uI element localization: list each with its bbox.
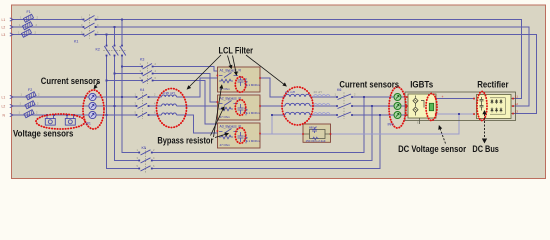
switch K5 pole 2 (141, 158, 151, 163)
svg-text:K4: K4 (140, 88, 144, 92)
wire DC snubber branch (260, 114, 459, 134)
svg-text:A2_Bypass_R: A2_Bypass_R (220, 97, 242, 101)
subsystem enclosure converter (405, 92, 516, 121)
highlight ellipse voltage sensors (36, 114, 85, 129)
wire L2 top bus (12, 27, 529, 106)
current sensor CT6 green phase3 (394, 112, 401, 119)
bypass module box B1 (218, 67, 261, 92)
highlight ellipse DC voltage sensor (426, 94, 437, 121)
svg-text:L1: L1 (2, 18, 6, 22)
IGBT module U1 (408, 94, 436, 124)
svg-text:0.95 mH: 0.95 mH (163, 91, 175, 95)
switch K6 pole 1 (338, 94, 352, 100)
inductor La1 0.95mH (162, 95, 177, 97)
junction node snubber tee (458, 113, 460, 115)
switch K4 pole 2 (138, 103, 148, 108)
highlight ellipse inductors La (157, 89, 187, 128)
svg-text:1 MOhm: 1 MOhm (249, 111, 261, 115)
bypass module box B3 (218, 123, 261, 148)
svg-text:Current sensors: Current sensors (339, 80, 399, 90)
junction node K3 tee phase3 (105, 79, 107, 81)
annotation arrow bypass to B1 (214, 88, 222, 137)
inductor Lb3 (285, 112, 310, 115)
highlight ellipse current sensors right (389, 87, 406, 128)
terminal L2 input (10, 25, 13, 28)
svg-text:Rectifier: Rectifier (477, 79, 509, 89)
svg-text:W1: W1 (86, 122, 91, 126)
svg-text:K3: K3 (140, 58, 144, 62)
rectifier module U2 (477, 95, 514, 119)
junction node K3 tee phase1 (121, 65, 123, 67)
junction node ellipse2 tee (271, 114, 273, 116)
inductor Lc2 (314, 104, 330, 106)
annotation arrow LCL to B1 (228, 56, 231, 66)
svg-text:L2: L2 (2, 26, 6, 30)
wire K3 bypass feed phase3 (107, 81, 218, 125)
RC snubber box (303, 124, 331, 143)
svg-text:DC Bus: DC Bus (472, 144, 499, 154)
junction node loop return phase2 (371, 105, 373, 107)
fuse F1 phase L3 (21, 29, 31, 37)
wire mid bus phase1 (12, 78, 407, 97)
fuse F1 phase L2 (22, 22, 32, 30)
wire K3 bypass feed phase2 (115, 74, 218, 103)
svg-text:F2: F2 (28, 88, 32, 92)
wire tap phase1 vertical + bottom loop (122, 20, 364, 153)
terminal L1 input (10, 18, 13, 117)
wire DC plus link (436, 98, 474, 100)
highlight ellipse DC bus capacitors (477, 92, 487, 121)
svg-text:L1: L1 (515, 95, 519, 99)
junction node loop return phase1 (363, 96, 365, 98)
svg-text:Voltage sensors: Voltage sensors (13, 129, 73, 139)
bypass module box B2 (218, 95, 261, 120)
svg-text:1 MOhm: 1 MOhm (249, 83, 261, 87)
pin number texts (18, 15, 419, 168)
junction node tap L3 (105, 33, 107, 35)
wire L3 top bus (12, 35, 537, 114)
switch K3 pole 3 (143, 78, 153, 84)
junction node mid bus phase3 (105, 114, 107, 116)
switch K2 pole 2 (112, 46, 118, 56)
inductor Lb2 (285, 103, 310, 106)
terminal L1 measure input (10, 95, 13, 98)
wire tap phase3 vertical + bottom loop (107, 35, 381, 169)
svg-text:1 MOhm: 1 MOhm (249, 139, 261, 143)
junction node K3 tee phase2 (113, 72, 115, 74)
svg-text:150 Ohm 2.2uF: 150 Ohm 2.2uF (306, 139, 326, 143)
current sensor CT4 green phase1 (394, 94, 401, 101)
svg-text:L2: L2 (515, 102, 519, 106)
svg-text:A1_Bypass_R: A1_Bypass_R (220, 69, 242, 73)
terminal L3 input (10, 33, 13, 36)
wire tap phase2 vertical + bottom loop (115, 27, 373, 161)
switch K1 pole L2 (84, 23, 95, 29)
voltage sensor VT2 (65, 115, 75, 125)
svg-text:Current sensors: Current sensors (41, 76, 101, 86)
component pin red markers (217, 75, 514, 135)
switch K3 pole 2 (143, 71, 153, 77)
reference designators and values (27, 10, 395, 150)
current sensor CT2 phase2 (89, 102, 96, 109)
junction node voltage sensor taps (46, 114, 48, 116)
svg-text:L1: L1 (2, 96, 6, 100)
svg-text:K1: K1 (74, 40, 78, 44)
highlight ellipse current sensors left (36, 77, 487, 144)
highlight ellipse bypass cap B2 (235, 100, 245, 116)
junction node mid bus phase1 (121, 96, 123, 98)
inductor La2 (162, 104, 177, 106)
current sensor CT5 green phase2 (394, 103, 401, 110)
svg-text:L3: L3 (2, 33, 6, 37)
highlight ellipse bypass cap B3 (235, 128, 245, 144)
switch K5 pole 1 (141, 150, 151, 155)
junction node tap L1 (46, 18, 460, 116)
schematic sheet (0, 0, 550, 188)
annotation arrow LCL to Lb (246, 55, 284, 84)
svg-text:2.1 mH: 2.1 mH (285, 90, 295, 94)
terminal N measure input (10, 113, 13, 116)
switch K3 pole 1 (143, 64, 153, 70)
svg-text:47 Ohm: 47 Ohm (220, 115, 231, 119)
inductor La3 (162, 113, 177, 115)
annotation arrow LCL to La (190, 55, 222, 87)
svg-text:DC Voltage sensor: DC Voltage sensor (398, 144, 467, 154)
wire DC minus link (436, 113, 474, 115)
svg-text:K5: K5 (142, 146, 146, 150)
switch K6 pole 3 (338, 112, 352, 118)
switch K1 pole L1 (84, 16, 95, 22)
svg-text:20 uH: 20 uH (314, 90, 322, 94)
junction node loop return phase3 (379, 114, 381, 116)
wire K3 bypass feed phase1 (122, 67, 218, 72)
annotation arrow current sensors left (94, 82, 98, 89)
svg-text:K2: K2 (96, 48, 100, 52)
fuse F2 phase L1 (26, 92, 36, 100)
switch gang dashed links (90, 15, 345, 173)
svg-text:Bypass resistor: Bypass resistor (157, 136, 213, 146)
fuse F1 phase L1 (23, 14, 33, 22)
svg-text:INV: INV (388, 123, 395, 127)
junction node tap L2 (113, 26, 115, 28)
switch K4 pole 1 (138, 94, 148, 99)
current sensor CT3 phase3 (89, 111, 96, 118)
DC voltage sensor green (429, 103, 433, 110)
annotation arrow bypass to B2 (211, 110, 223, 136)
svg-text:LCL Filter: LCL Filter (219, 46, 254, 56)
switch K2 pole 3 (104, 46, 110, 56)
svg-text:IGBTs: IGBTs (410, 79, 433, 89)
fuse F2 phase L2 (25, 101, 35, 109)
svg-text:L3: L3 (515, 110, 519, 114)
current sensor CT1 phase1 (89, 93, 96, 100)
inductor Lc3 (314, 113, 330, 115)
annotation arrow DC bus (483, 111, 487, 143)
wire L1 top bus (12, 20, 522, 99)
wire mid bus phase2 (12, 105, 407, 107)
annotation arrow LCL to B2 (233, 56, 236, 73)
svg-text:A3_Bypass_R: A3_Bypass_R (220, 125, 242, 129)
annotation arrow DC voltage sensor (439, 126, 446, 144)
svg-text:680uF: 680uF (309, 126, 317, 130)
terminal L2 measure input (10, 104, 13, 107)
inductor Lc1 20uH (314, 95, 330, 97)
switch K1 pole L3 (84, 31, 95, 37)
svg-text:47 Ohm: 47 Ohm (220, 143, 231, 147)
highlight ellipse bypass cap B1 (235, 77, 245, 93)
svg-text:F1: F1 (27, 10, 31, 14)
switch K4 pole 3 (138, 112, 148, 117)
switch K2 pole 1 (120, 46, 126, 56)
svg-text:L2: L2 (2, 105, 6, 109)
switch pin dots (83, 19, 353, 170)
wire mid bus phase3 (12, 115, 407, 133)
switch K6 pole 2 (338, 103, 352, 109)
inductor Lb1 2.1mH (285, 94, 310, 97)
highlight ellipse inductors Lb (282, 87, 313, 125)
svg-text:E: E (417, 121, 419, 125)
fuse F2 phase N (24, 110, 34, 118)
switch K5 pole 3 (141, 166, 151, 171)
svg-text:K6: K6 (337, 88, 341, 92)
svg-text:+: + (442, 95, 444, 99)
voltage sensor VT1 (45, 115, 55, 125)
annotation arrow bypass to B3 (215, 134, 226, 137)
junction node mid bus phase2 (113, 105, 115, 107)
